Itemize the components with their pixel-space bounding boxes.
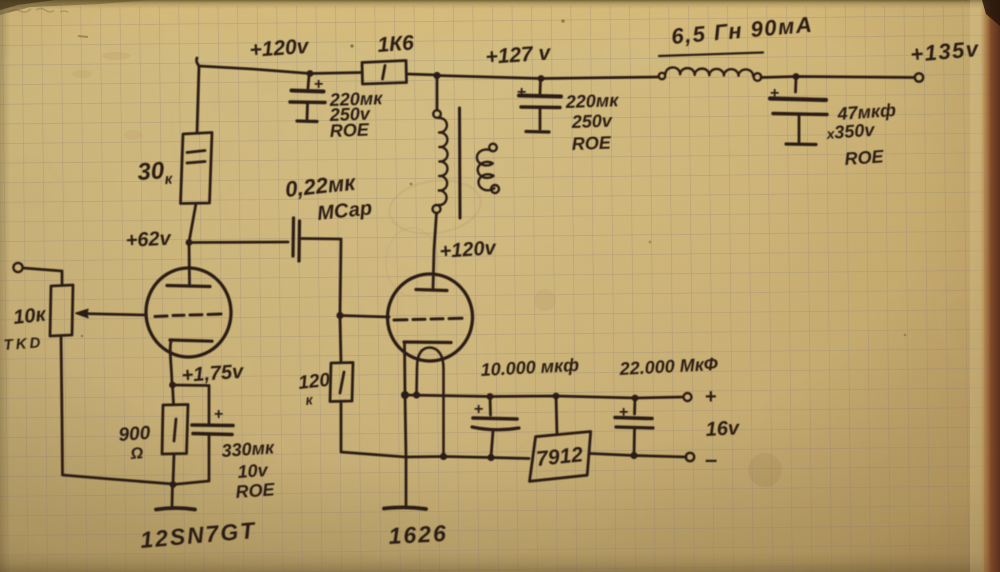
capacitor C6 bottom lead <box>491 431 493 457</box>
tube V2 cathode <box>404 340 451 344</box>
svg-text:+62v: +62v <box>125 228 173 252</box>
capacitor C2 220mk top lead <box>539 80 542 93</box>
junction C6 on rail <box>487 393 494 400</box>
underline of choke label <box>659 53 763 57</box>
svg-text:–: – <box>705 447 717 472</box>
svg-text:250v: 250v <box>570 111 613 132</box>
svg-text:ROE: ROE <box>844 146 885 169</box>
capacitor C1 220mk top lead <box>308 76 309 88</box>
transformer T1 core <box>458 108 462 218</box>
capacitor C6 10000mkf top lead <box>489 397 492 415</box>
terminal 16v minus <box>686 453 694 461</box>
junction node A at transformer tap <box>433 72 440 79</box>
capacitor C7 bottom lead <box>633 429 636 455</box>
wire: B+ rail from 30k top to 1K6 <box>196 58 362 74</box>
junction heater pin on rail <box>413 391 420 398</box>
transformer T1 secondary winding <box>477 149 494 190</box>
svg-text:900: 900 <box>118 423 152 446</box>
svg-text:Ω: Ω <box>129 445 144 463</box>
tube V2 plate <box>416 290 447 291</box>
tube V2 heater loop <box>417 348 444 457</box>
transformer T1 secondary top terminal <box>489 144 497 152</box>
capacitor C4 330mk top lead <box>208 386 211 424</box>
svg-text:+1,75v: +1,75v <box>181 361 246 387</box>
junction C7 on rail <box>632 395 639 402</box>
wire: bottom heater rail left of U1 <box>406 457 530 459</box>
wire: heater top rail <box>405 395 683 398</box>
resistor R4 value tick <box>340 372 344 393</box>
capacitor C1 end bar <box>297 119 317 123</box>
ground V2 <box>384 507 426 509</box>
wire: primary bottom to V2 plate (+120v) <box>433 213 437 289</box>
svg-text:1К6: 1К6 <box>377 31 415 56</box>
svg-text:+120v: +120v <box>249 35 311 62</box>
transformer T1 primary winding <box>438 118 447 205</box>
wire: regulator U1 input lead <box>556 396 557 434</box>
capacitor C6 plates <box>473 418 517 419</box>
terminal +135v <box>915 73 923 81</box>
transformer T1 primary top terminal <box>433 110 441 118</box>
wire: 900 ohm to ground node <box>173 454 174 484</box>
capacitor C1 bottom lead <box>306 104 309 119</box>
resistor R3 900 ohm body <box>162 405 188 455</box>
resistor R1 value tick <box>383 66 386 80</box>
choke L1 winding <box>666 67 754 76</box>
svg-text:+: + <box>517 84 526 101</box>
tube V2 grid (dashed) <box>394 318 462 320</box>
wire: 120k to bottom heater rail <box>341 402 406 458</box>
svg-text:+120v: +120v <box>439 237 498 263</box>
node +1.75v <box>169 382 176 389</box>
svg-text:ROE: ROE <box>571 133 612 154</box>
svg-text:+: + <box>705 386 717 408</box>
resistor R2 30k body <box>181 133 213 204</box>
capacitor C3 bottom lead <box>798 116 801 142</box>
junction node at C2 (+127v) <box>538 75 545 82</box>
svg-text:7912: 7912 <box>535 443 584 471</box>
svg-text:ROE: ROE <box>329 120 370 141</box>
svg-text:10к: 10к <box>12 304 47 329</box>
transformer T1 primary bottom terminal <box>433 205 441 213</box>
wire: node to 330mk cap <box>173 384 210 387</box>
junction U1 input on rail <box>553 393 560 400</box>
capacitor C4 bottom lead <box>173 436 209 485</box>
input terminal <box>13 263 22 272</box>
regulator U1 7912 box <box>530 432 591 482</box>
junction C7 on bottom rail <box>630 452 637 459</box>
capacitor C2 end bar <box>526 130 549 134</box>
resistor R3 value tick <box>174 419 176 441</box>
bottom shadow <box>0 552 1000 572</box>
wire: V1 grid to pot wiper <box>79 314 146 316</box>
wire: input terminal to pot top <box>23 268 62 285</box>
tube V2 1626 envelope <box>386 273 474 363</box>
svg-text:+: + <box>314 76 323 93</box>
svg-text:120: 120 <box>297 370 331 394</box>
wire: C5 to V2 grid corner <box>302 239 342 316</box>
junction node at C3 <box>793 73 800 80</box>
capacitor C2 plates <box>519 96 561 97</box>
wire: V2 cathode down to ground <box>405 343 407 506</box>
capacitor C5 0.22mk plates <box>291 218 295 256</box>
choke L1 right terminal <box>754 73 762 81</box>
svg-text:+: + <box>770 85 779 102</box>
resistor R1 1K6 body <box>362 61 407 85</box>
wire: rail to 30k resistor <box>197 66 199 133</box>
svg-text:+: + <box>214 406 223 423</box>
resistor R2 value ticks <box>187 151 205 164</box>
wire: C2 node to choke <box>541 77 658 79</box>
capacitor C2 bottom lead <box>539 109 542 129</box>
potentiometer P1 10k body <box>50 285 73 336</box>
wire: node down to 120k <box>340 316 341 363</box>
svg-text:16v: 16v <box>705 417 741 441</box>
svg-text:+127 v: +127 v <box>485 41 553 69</box>
capacitor C4 plates <box>192 423 233 427</box>
wire: +62v node to coupling cap <box>189 241 288 244</box>
tube V1 grid (dashed) <box>155 314 221 317</box>
svg-text:+: + <box>619 404 628 421</box>
top-left dark corner <box>0 0 150 15</box>
junction node at V2 grid <box>336 312 343 319</box>
junction node at C1 (+120v) <box>307 70 314 77</box>
right page edge stripe <box>980 0 1000 572</box>
junction heater leg on bottom rail <box>440 453 447 460</box>
capacitor C3 plates <box>770 99 826 101</box>
node +62v <box>186 239 193 246</box>
wire: node A down to transformer primary <box>436 76 439 111</box>
tube V1 12SN7GT envelope <box>144 267 232 359</box>
tube V1 plate <box>167 286 210 287</box>
resistor R4 120k body <box>330 363 353 402</box>
transformer T1 secondary bottom terminal <box>491 185 499 193</box>
junction C6 on bottom rail <box>487 454 494 461</box>
ground V1 <box>156 508 195 510</box>
tube V1 cathode <box>170 340 212 341</box>
wire: 1K6 to transformer tap node <box>407 74 438 75</box>
svg-text:10v: 10v <box>237 460 269 482</box>
junction cathode on heater rail <box>401 391 409 399</box>
wire: +62v node to V1 plate <box>188 243 191 285</box>
capacitor C7 plates <box>615 418 652 419</box>
wire: choke to +135v terminal <box>761 77 914 78</box>
wire: node to 900 ohm resistor <box>173 385 174 404</box>
capacitor C3 end bar <box>786 142 816 146</box>
junction node at ground bus <box>170 481 177 488</box>
svg-text:330мк: 330мк <box>221 437 276 461</box>
wire: node to ground V1 <box>171 485 174 507</box>
capacitor C1 plates <box>292 91 324 92</box>
choke L1 left terminal <box>659 73 665 79</box>
pot wiper arrowhead <box>76 310 88 318</box>
wire: 30k to +62v node <box>189 204 196 243</box>
wire: V1 cathode lead down <box>170 341 172 384</box>
wire: bottom heater rail right of U1 <box>591 454 687 458</box>
wire: pot bottom to cathode ground node <box>61 336 173 484</box>
wire: node A to C2 node <box>437 76 541 79</box>
svg-text:1626: 1626 <box>388 520 448 549</box>
svg-text:220мк: 220мк <box>564 90 619 112</box>
capacitor C3 47mkf top lead <box>794 78 797 92</box>
terminal 16v plus <box>684 393 692 401</box>
wire: node to V2 grid <box>340 316 389 318</box>
svg-text:+: + <box>474 401 483 418</box>
svg-text:ROE: ROE <box>235 479 276 502</box>
top edge shadow <box>0 0 1000 9</box>
capacitor C7 22000mkf top lead <box>633 398 636 414</box>
svg-text:TKD: TKD <box>3 334 44 354</box>
